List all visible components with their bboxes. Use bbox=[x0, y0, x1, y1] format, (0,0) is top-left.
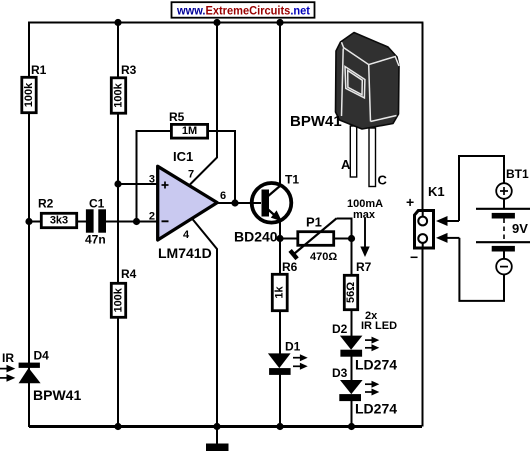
IR LED D3 bbox=[332, 366, 397, 417]
svg-text:R6: R6 bbox=[282, 260, 298, 274]
BPW41 cathode leg bbox=[369, 128, 376, 187]
svg-text:C: C bbox=[378, 173, 388, 188]
connector K1 bbox=[406, 184, 445, 265]
resistor R5 bbox=[169, 110, 208, 138]
photodiode package BPW41 illustration bbox=[290, 33, 399, 188]
resistor R6 bbox=[272, 260, 297, 311]
annotation 100mA max arrow bbox=[347, 198, 383, 257]
wire feedback left bbox=[137, 131, 171, 222]
svg-text:D3: D3 bbox=[332, 366, 348, 380]
wire battery plus lead bbox=[459, 156, 504, 221]
battery dashed link bbox=[503, 219, 505, 243]
svg-text:IR: IR bbox=[2, 351, 14, 365]
svg-text:R2: R2 bbox=[38, 197, 54, 211]
battery BT1 bbox=[459, 156, 530, 301]
svg-text:2: 2 bbox=[149, 211, 155, 223]
svg-text:R4: R4 bbox=[121, 267, 137, 281]
svg-text:1M: 1M bbox=[182, 125, 197, 137]
resistor R7 bbox=[344, 260, 371, 310]
svg-text:100k: 100k bbox=[112, 287, 124, 312]
svg-text:R1: R1 bbox=[31, 63, 47, 77]
svg-text:D1: D1 bbox=[285, 340, 301, 354]
node bottom R4 bbox=[114, 423, 121, 430]
node top T1 bbox=[276, 19, 283, 26]
svg-text:9V: 9V bbox=[512, 221, 528, 236]
resistor R1 bbox=[22, 63, 47, 113]
node R2 tap bbox=[25, 218, 32, 225]
battery plus terminal circle bbox=[496, 183, 512, 199]
BPW41 package edges and window bbox=[342, 42, 400, 121]
svg-text:LD274: LD274 bbox=[355, 357, 397, 373]
D3 light arrows bbox=[365, 383, 373, 385]
wire T1 emitter to R6 bbox=[279, 219, 281, 274]
svg-text:6: 6 bbox=[220, 190, 226, 202]
svg-text:−: − bbox=[410, 249, 418, 265]
wire P1 wiper bbox=[337, 219, 352, 239]
node pin3 divider bbox=[114, 180, 121, 187]
D1 light arrows bbox=[293, 357, 301, 359]
node feedback pin2 bbox=[133, 218, 140, 225]
BPW41 anode leg bbox=[350, 126, 356, 177]
svg-text:47n: 47n bbox=[85, 233, 106, 247]
svg-text:470Ω: 470Ω bbox=[310, 251, 337, 263]
svg-text:D2: D2 bbox=[332, 322, 348, 336]
node P1/R7 bbox=[348, 235, 355, 242]
capacitor C1 bbox=[85, 196, 106, 246]
svg-text:100k: 100k bbox=[23, 82, 35, 107]
node top pin7 bbox=[213, 19, 220, 26]
K1 pin 1 bbox=[418, 217, 427, 226]
svg-text:BT1: BT1 bbox=[506, 167, 529, 181]
minus input mark bbox=[162, 220, 169, 222]
node bottom D3 bbox=[348, 423, 355, 430]
wire output pin6 bbox=[217, 202, 261, 204]
wire pin2 input right bbox=[106, 221, 159, 223]
battery cell 2 plates bbox=[476, 241, 530, 243]
wire pin2 input left bbox=[29, 221, 87, 223]
wire pin3 input bbox=[118, 183, 158, 185]
svg-text:1k: 1k bbox=[274, 286, 286, 299]
svg-text:A: A bbox=[341, 157, 351, 172]
node top R3 bbox=[114, 19, 121, 26]
svg-text:56Ω: 56Ω bbox=[345, 282, 357, 303]
wire top rail bbox=[28, 22, 423, 24]
svg-text:+: + bbox=[406, 194, 414, 210]
photodiode D4 bbox=[0, 349, 81, 404]
svg-text:T1: T1 bbox=[285, 173, 299, 187]
svg-text:K1: K1 bbox=[428, 184, 445, 199]
svg-text:100k: 100k bbox=[112, 82, 124, 107]
node output bbox=[231, 199, 238, 206]
svg-text:R7: R7 bbox=[356, 260, 372, 274]
svg-text:BPW41: BPW41 bbox=[290, 113, 342, 130]
wire K1 bottom bbox=[422, 249, 424, 427]
node bottom D1 bbox=[276, 423, 283, 430]
wire R7 node down bbox=[351, 239, 353, 275]
wire R3/R4 vertical bbox=[117, 23, 119, 427]
transistor T1 bbox=[234, 173, 299, 245]
wire T1 to P1 bbox=[280, 238, 297, 240]
node bottom ground bbox=[213, 423, 220, 430]
wire battery minus lead bbox=[459, 238, 504, 301]
svg-text:3: 3 bbox=[149, 174, 155, 186]
wire D3 to bottom rail bbox=[351, 401, 353, 427]
svg-text:D4: D4 bbox=[34, 349, 50, 363]
svg-text:R3: R3 bbox=[121, 63, 137, 77]
svg-text:C1: C1 bbox=[89, 196, 105, 210]
plus input mark bbox=[162, 184, 169, 186]
K1 plug arrows bbox=[436, 216, 459, 243]
svg-text:IR LED: IR LED bbox=[361, 320, 397, 332]
D2 light arrows bbox=[365, 339, 373, 341]
svg-text:4: 4 bbox=[183, 229, 190, 241]
LED D1 bbox=[268, 340, 308, 375]
ground bbox=[206, 427, 229, 451]
wire R6 to D1 bbox=[279, 311, 281, 354]
wire left rail bbox=[28, 23, 30, 428]
node T1 emitter bbox=[276, 235, 283, 242]
wire bottom rail bbox=[29, 425, 422, 428]
potentiometer P1 bbox=[288, 215, 337, 264]
BPW41 package body bbox=[336, 33, 400, 130]
wire D2 to D3 bbox=[351, 356, 353, 381]
wire T1 collector vertical bbox=[279, 23, 281, 187]
wire inside K1 bbox=[422, 211, 424, 218]
battery cell 1 plates bbox=[476, 208, 530, 210]
IR light arrows into D4 bbox=[0, 368, 7, 370]
svg-text:7: 7 bbox=[188, 169, 194, 181]
wire pin7 bbox=[190, 23, 217, 185]
resistor R3 bbox=[111, 63, 136, 113]
wire pin4 bbox=[192, 219, 217, 427]
svg-text:3k3: 3k3 bbox=[50, 215, 68, 227]
svg-text:IC1: IC1 bbox=[173, 149, 193, 164]
svg-text:www.ExtremeCircuits.net: www.ExtremeCircuits.net bbox=[176, 4, 310, 18]
op-amp IC1 bbox=[149, 149, 226, 261]
svg-text:BD240: BD240 bbox=[234, 229, 278, 245]
svg-text:P1: P1 bbox=[306, 215, 322, 230]
battery minus terminal circle bbox=[496, 259, 512, 275]
wire D1 to bottom rail bbox=[279, 374, 281, 427]
wire R7 to D2 bbox=[351, 311, 353, 337]
title box www.ExtremeCircuits.net bbox=[172, 2, 315, 18]
svg-text:BPW41: BPW41 bbox=[33, 387, 81, 403]
K1 pin 2 bbox=[418, 234, 427, 243]
wire feedback right bbox=[209, 131, 235, 203]
svg-text:LM741D: LM741D bbox=[158, 245, 212, 261]
resistor R4 bbox=[111, 267, 136, 317]
IR LED D2 bbox=[332, 310, 397, 373]
svg-text:LD274: LD274 bbox=[355, 401, 397, 417]
wire K1 top bbox=[422, 23, 424, 211]
wire P1 to R7 node bbox=[335, 238, 352, 240]
resistor R2 bbox=[38, 197, 77, 228]
svg-text:R5: R5 bbox=[169, 110, 185, 124]
